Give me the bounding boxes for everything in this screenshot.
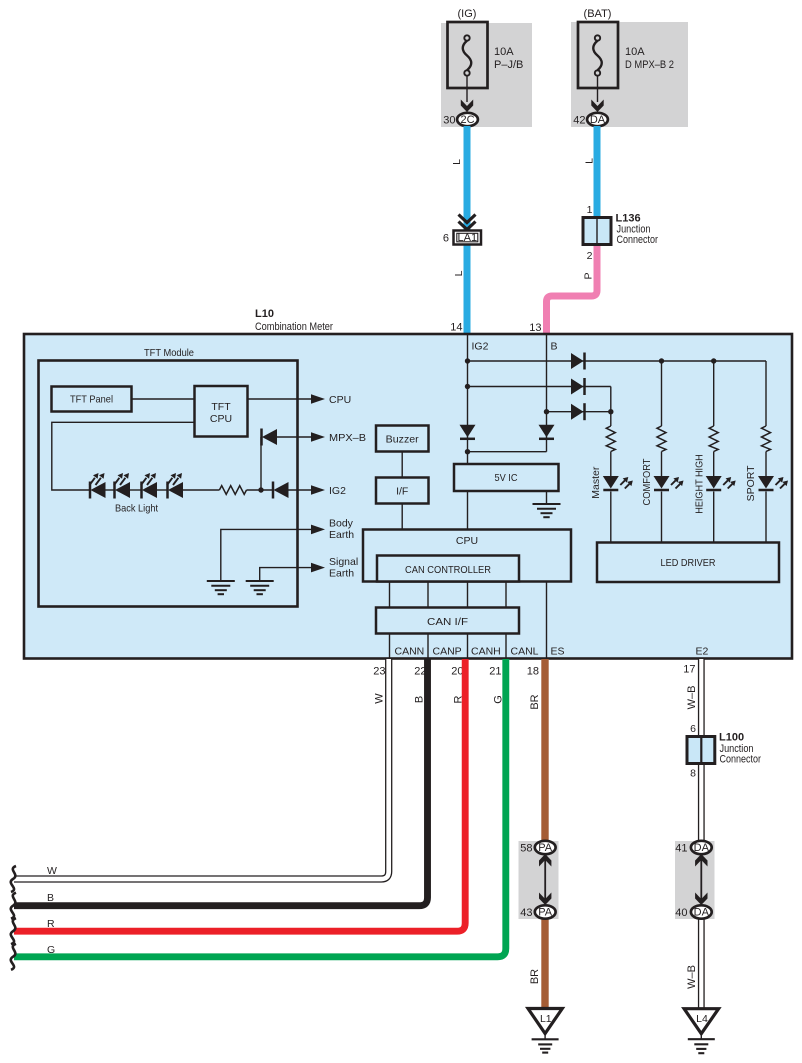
svg-text:Earth: Earth <box>329 529 354 541</box>
svg-text:CANL: CANL <box>511 646 539 658</box>
svg-text:L10: L10 <box>255 308 274 320</box>
svg-text:E2: E2 <box>696 646 709 658</box>
svg-text:I/F: I/F <box>396 486 408 498</box>
svg-text:TFT Panel: TFT Panel <box>70 394 113 406</box>
svg-text:W: W <box>374 693 386 704</box>
svg-text:6: 6 <box>690 723 696 735</box>
svg-text:P–J/B: P–J/B <box>494 59 523 71</box>
svg-text:14: 14 <box>450 322 462 334</box>
svg-text:L: L <box>451 159 463 165</box>
svg-text:LED DRIVER: LED DRIVER <box>661 557 716 569</box>
svg-text:Combination Meter: Combination Meter <box>255 321 333 333</box>
svg-text:PA: PA <box>538 907 553 919</box>
svg-text:TFT: TFT <box>211 401 231 413</box>
svg-text:IG2: IG2 <box>329 485 346 497</box>
svg-text:CANH: CANH <box>471 646 501 658</box>
svg-text:20: 20 <box>451 666 463 678</box>
svg-text:R: R <box>47 918 55 930</box>
svg-text:CPU: CPU <box>329 394 351 406</box>
svg-text:CANP: CANP <box>433 646 462 658</box>
svg-text:Body: Body <box>329 518 354 530</box>
svg-text:G: G <box>47 944 55 956</box>
svg-text:P: P <box>583 272 595 279</box>
svg-text:L100: L100 <box>719 732 744 744</box>
svg-text:B: B <box>413 696 425 703</box>
svg-text:30: 30 <box>443 115 455 127</box>
svg-text:10A: 10A <box>494 46 514 58</box>
svg-text:Connector: Connector <box>720 754 762 766</box>
svg-text:B: B <box>47 892 54 904</box>
svg-text:2C: 2C <box>460 114 474 126</box>
svg-text:42: 42 <box>573 115 585 127</box>
svg-text:CPU: CPU <box>210 413 232 425</box>
svg-text:58: 58 <box>520 843 532 855</box>
svg-text:PA: PA <box>538 842 553 854</box>
svg-text:DA: DA <box>590 114 606 126</box>
svg-text:DA: DA <box>694 907 710 919</box>
svg-text:Signal: Signal <box>329 556 358 568</box>
svg-text:HEIGHT HIGH: HEIGHT HIGH <box>693 454 705 514</box>
svg-text:CANN: CANN <box>395 646 425 658</box>
svg-text:CPU: CPU <box>456 535 478 547</box>
svg-text:10A: 10A <box>625 46 645 58</box>
svg-text:COMFORT: COMFORT <box>641 458 653 506</box>
svg-text:BR: BR <box>529 969 541 984</box>
svg-text:Buzzer: Buzzer <box>386 434 419 446</box>
svg-text:43: 43 <box>520 907 532 919</box>
svg-text:23: 23 <box>373 666 385 678</box>
svg-text:MPX–B: MPX–B <box>329 432 366 444</box>
svg-text:1: 1 <box>587 204 593 216</box>
svg-text:Connector: Connector <box>617 234 659 246</box>
svg-text:W–B: W–B <box>686 965 698 989</box>
svg-text:L: L <box>453 270 465 276</box>
svg-text:40: 40 <box>675 907 687 919</box>
svg-text:21: 21 <box>489 666 501 678</box>
svg-text:Master: Master <box>590 466 602 499</box>
svg-text:SPORT: SPORT <box>745 465 757 502</box>
svg-text:W–B: W–B <box>686 686 698 710</box>
svg-text:W: W <box>47 865 57 877</box>
svg-text:LA1: LA1 <box>458 232 478 244</box>
svg-text:B: B <box>551 341 558 353</box>
svg-text:5V IC: 5V IC <box>495 472 518 484</box>
svg-text:Earth: Earth <box>329 568 354 580</box>
svg-text:2: 2 <box>587 250 593 262</box>
svg-text:CAN I/F: CAN I/F <box>427 616 468 628</box>
svg-text:8: 8 <box>690 768 696 780</box>
svg-text:13: 13 <box>529 322 541 334</box>
svg-text:L4: L4 <box>696 1013 708 1025</box>
svg-text:CAN CONTROLLER: CAN CONTROLLER <box>405 564 491 576</box>
svg-text:41: 41 <box>675 843 687 855</box>
svg-text:DA: DA <box>694 842 710 854</box>
svg-text:D MPX–B 2: D MPX–B 2 <box>625 59 674 71</box>
svg-text:Back Light: Back Light <box>115 503 158 515</box>
svg-text:TFT Module: TFT Module <box>144 347 194 359</box>
svg-text:L: L <box>584 158 596 164</box>
svg-text:L1: L1 <box>540 1013 552 1025</box>
svg-text:ES: ES <box>551 646 565 658</box>
svg-text:6: 6 <box>443 233 449 245</box>
svg-text:18: 18 <box>527 666 539 678</box>
svg-text:(BAT): (BAT) <box>584 8 612 20</box>
svg-text:17: 17 <box>683 664 695 676</box>
svg-text:BR: BR <box>529 694 541 709</box>
svg-text:(IG): (IG) <box>458 8 477 20</box>
svg-text:IG2: IG2 <box>472 341 489 353</box>
